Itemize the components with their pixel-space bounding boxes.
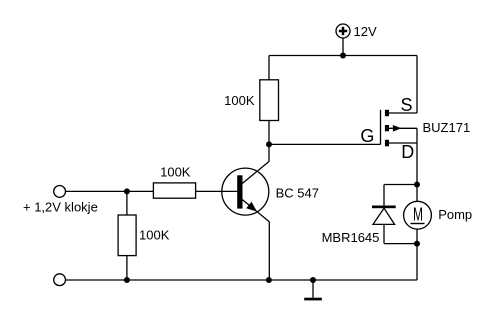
svg-text:G: G bbox=[360, 126, 374, 146]
transistor (mosfet) U1 BUZ171 bbox=[381, 110, 402, 147]
wire motor top lead bbox=[416, 185, 418, 202]
svg-text:D: D bbox=[401, 142, 414, 162]
svg-text:Pomp: Pomp bbox=[438, 207, 472, 222]
wire ground stem bbox=[312, 280, 314, 298]
wire diode top branch bbox=[384, 184, 417, 186]
wire diode anode lead bbox=[383, 224, 385, 243]
svg-text:S: S bbox=[400, 95, 412, 115]
wire base lead bbox=[196, 190, 238, 192]
svg-text:100K: 100K bbox=[160, 165, 191, 180]
pin label D bbox=[401, 142, 414, 162]
wire 12V lead bbox=[342, 38, 344, 56]
wire gate lead bbox=[269, 143, 381, 145]
node motor-diode bottom junction bbox=[414, 241, 420, 247]
node ground junction on bottom rail bbox=[310, 277, 316, 283]
resistor 100K (collector pull-up) bbox=[260, 80, 279, 121]
svg-text:12V: 12V bbox=[354, 24, 377, 39]
node emitter junction on bottom rail bbox=[266, 277, 272, 283]
wire body lead bbox=[389, 127, 417, 129]
power +12V supply symbol bbox=[336, 24, 350, 38]
wire right vertical mid (body/drain down) bbox=[416, 128, 418, 184]
label MBR1645 bbox=[322, 230, 380, 245]
wire right vertical bottom bbox=[416, 244, 418, 280]
wire drain lead bbox=[389, 142, 417, 144]
wire input lead bbox=[66, 190, 154, 192]
value label 100K (base series) bbox=[160, 165, 191, 180]
wire divider top bbox=[126, 191, 128, 215]
svg-text:MBR1645: MBR1645 bbox=[322, 230, 380, 245]
wire emitter vertical bbox=[268, 222, 270, 280]
wire top rail bbox=[269, 55, 417, 57]
wire rail to resistor top bbox=[268, 56, 270, 80]
wire diode cathode lead bbox=[383, 185, 385, 206]
wire resistor bottom to gate node bbox=[268, 121, 270, 145]
label Pomp bbox=[438, 207, 472, 222]
svg-text:BC 547: BC 547 bbox=[276, 186, 319, 201]
motor M1 (Pomp) bbox=[404, 201, 432, 229]
label 12V bbox=[354, 24, 377, 39]
wire collector vertical bbox=[268, 144, 270, 161]
wire motor bottom lead bbox=[416, 229, 418, 244]
label BUZ171 bbox=[423, 120, 471, 135]
wire bottom rail bbox=[66, 279, 418, 281]
wire divider bottom bbox=[126, 256, 128, 280]
pin label S bbox=[400, 95, 412, 115]
node drain-motor-diode top junction bbox=[414, 182, 420, 188]
value label 100K (divider) bbox=[139, 227, 170, 242]
node junction 12V on top rail bbox=[340, 53, 346, 59]
terminal input bottom bbox=[54, 274, 66, 286]
terminal input top bbox=[54, 186, 66, 198]
resistor 100K (divider to ground) bbox=[118, 215, 136, 256]
value label 100K (pull-up) bbox=[224, 93, 255, 108]
node input junction bbox=[124, 188, 130, 194]
wire right vertical top (rail to source) bbox=[416, 56, 418, 114]
diode D1 MBR1645 bbox=[372, 206, 396, 225]
svg-text:100K: 100K bbox=[224, 93, 255, 108]
svg-text:BUZ171: BUZ171 bbox=[423, 120, 471, 135]
ground bbox=[304, 298, 322, 301]
node gate junction bbox=[266, 141, 272, 147]
wire diode bottom branch bbox=[384, 243, 417, 245]
svg-text:100K: 100K bbox=[139, 227, 170, 242]
svg-text:M: M bbox=[413, 204, 423, 224]
node divider bottom junction bbox=[124, 277, 130, 283]
wire source lead bbox=[389, 112, 417, 114]
resistor 100K (base series) bbox=[153, 183, 195, 198]
svg-text:+ 1,2V klokje: + 1,2V klokje bbox=[23, 199, 98, 214]
transistor Q1 BC 547 bbox=[222, 162, 269, 222]
pin label G bbox=[360, 126, 374, 146]
label BC 547 bbox=[276, 186, 319, 201]
label + 1,2V klokje bbox=[23, 199, 98, 214]
